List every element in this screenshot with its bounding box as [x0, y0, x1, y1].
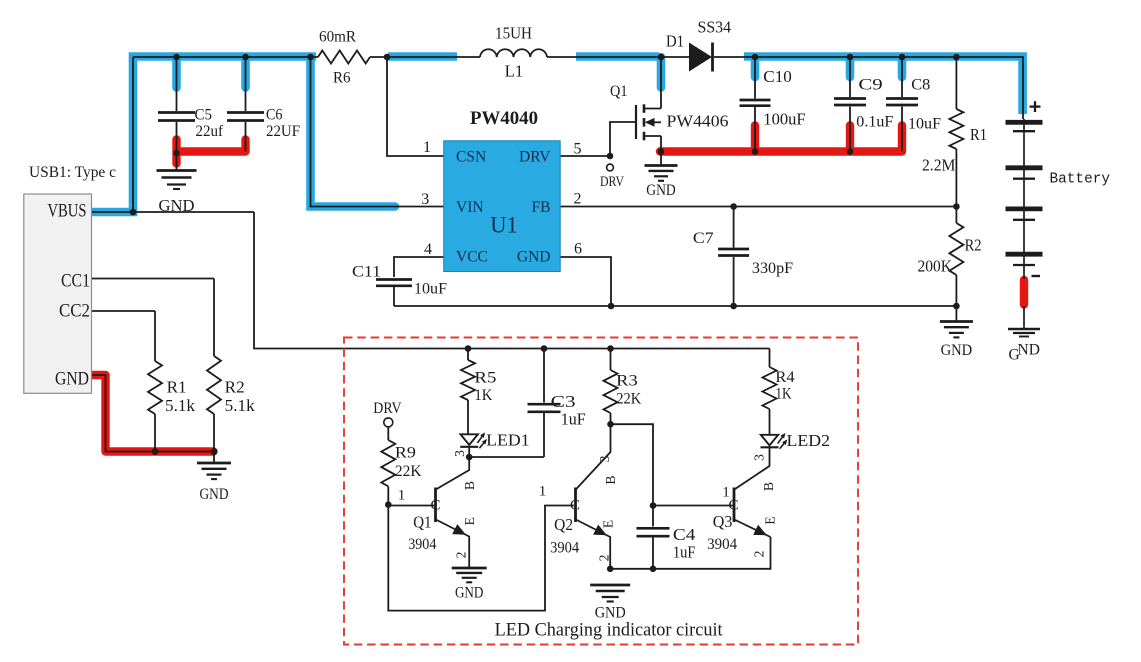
transistor Q2 3904 [539, 424, 618, 569]
resistor R1 5.1k pulldown [148, 361, 196, 415]
svg-text:2: 2 [752, 551, 767, 558]
wire blue stub C9 [846, 57, 855, 77]
svg-text:LED Charging indicator circuit: LED Charging indicator circuit [495, 621, 724, 641]
svg-text:C9: C9 [858, 77, 882, 94]
wire red power ground bus [660, 126, 902, 152]
svg-text:E: E [763, 516, 778, 524]
wire C6 bottom lead [245, 122, 247, 152]
svg-text:3904: 3904 [408, 536, 436, 553]
wire rail blue to battery [744, 57, 1023, 115]
svg-text:Q1: Q1 [413, 513, 431, 532]
transistor Q1 PW4406 mosfet [610, 83, 729, 140]
pin number 5 DRV [574, 141, 582, 158]
svg-text:C4: C4 [673, 525, 696, 544]
svg-text:E: E [601, 520, 616, 528]
svg-text:VBUS: VBUS [48, 200, 87, 221]
node LED1 cathode pin 3 [452, 447, 473, 461]
node DRV at pin 5 [600, 153, 624, 190]
wire blue stub C10 [751, 57, 760, 77]
wire C5 top lead [176, 57, 178, 111]
wire blue stub C5 [172, 57, 181, 88]
svg-text:B: B [462, 481, 477, 490]
svg-text:C6: C6 [266, 107, 283, 124]
svg-text:VIN: VIN [456, 199, 484, 216]
label LED charging indicator circuit [495, 621, 724, 641]
diode D1 SS34 [666, 18, 731, 72]
svg-text:C3: C3 [551, 392, 576, 411]
resistor R1 2.2M [922, 109, 987, 175]
svg-text:5.1k: 5.1k [165, 396, 196, 415]
svg-text:SS34: SS34 [698, 18, 732, 37]
wire CSN branch [387, 57, 444, 156]
svg-text:CSN: CSN [456, 148, 486, 165]
wire CC2 [92, 310, 156, 312]
wire VBUS horizontal [92, 211, 255, 213]
svg-text:3904: 3904 [707, 536, 737, 553]
transistor Q1 3904 [388, 457, 477, 568]
svg-text:LED2: LED2 [787, 431, 831, 450]
wire rail segment 3 [547, 56, 689, 58]
svg-text:10uF: 10uF [908, 116, 941, 133]
wire CC2 to R1 pulldown [154, 311, 156, 361]
svg-text:Q1: Q1 [610, 83, 628, 100]
svg-text:1: 1 [398, 488, 406, 504]
svg-text:3: 3 [452, 450, 467, 457]
wire C9 top lead [849, 57, 851, 97]
svg-text:GND: GND [941, 342, 973, 359]
capacitor C10 [740, 67, 806, 128]
wire GND pin6 [560, 257, 611, 306]
wire red USB GND [92, 375, 214, 452]
capacitor C7 330pF [693, 230, 794, 277]
svg-text:B: B [761, 482, 776, 491]
svg-text:22uf: 22uf [196, 123, 224, 140]
svg-text:R5: R5 [474, 369, 496, 386]
svg-text:R3: R3 [616, 373, 638, 390]
svg-text:2: 2 [574, 191, 582, 208]
wire R1 bottom lead [955, 149, 957, 207]
svg-text:1uF: 1uF [561, 410, 586, 429]
ground GND under Q1 source [645, 166, 678, 200]
svg-text:C5: C5 [195, 107, 213, 124]
svg-text:22K: 22K [616, 391, 641, 408]
wire USB ground stem [213, 452, 215, 464]
wire Q1 drain [660, 57, 662, 109]
wire blue stub Q1 drain [657, 57, 666, 88]
svg-text:1K: 1K [474, 387, 492, 404]
svg-text:FB: FB [532, 199, 551, 216]
svg-text:1: 1 [423, 139, 431, 156]
svg-text:U1: U1 [490, 213, 518, 239]
resistor R9 22K [373, 400, 422, 505]
wire C7 bottom lead [733, 257, 735, 306]
wire VBUS blue highlight [92, 57, 317, 213]
wire C8 bottom lead [901, 107, 903, 152]
wire rail segment 1 [133, 56, 318, 58]
svg-text:3: 3 [597, 455, 612, 462]
svg-text:GND: GND [455, 585, 484, 602]
wire red battery minus capsule [1020, 280, 1028, 305]
wire C6 top lead [245, 57, 247, 111]
svg-text:GND: GND [200, 486, 229, 503]
inductor L1 [480, 23, 547, 80]
resistor R4 1K [763, 367, 795, 435]
svg-text:15UH: 15UH [495, 23, 532, 42]
wire C9 bottom lead [849, 107, 851, 152]
svg-text:1uF: 1uF [673, 542, 696, 561]
svg-text:PW4040: PW4040 [470, 109, 538, 129]
svg-text:4: 4 [424, 241, 432, 258]
svg-text:60mR: 60mR [319, 28, 357, 45]
wire VCC to C11 [394, 257, 444, 277]
resistor R5 1K [461, 349, 496, 435]
wire R1 pulldown bottom lead [154, 414, 156, 452]
svg-text:22UF: 22UF [266, 123, 300, 140]
wire CC1 to R2 pulldown [213, 279, 215, 357]
svg-text:2.2M: 2.2M [922, 156, 956, 175]
svg-text:330pF: 330pF [752, 260, 794, 277]
dashed box LED charging indicator circuit [344, 338, 858, 645]
ground GND under Q1 emitter [452, 568, 487, 602]
svg-text:200K: 200K [918, 257, 953, 276]
wire Q2 emitter to Q3 emitter [610, 537, 770, 569]
svg-text:22K: 22K [395, 463, 422, 480]
LED LED1 [460, 431, 530, 450]
svg-text:R1: R1 [167, 378, 187, 397]
ground GND under C5 [157, 171, 197, 216]
svg-text:100uF: 100uF [763, 109, 805, 128]
svg-text:E: E [462, 517, 477, 525]
battery [1006, 101, 1111, 279]
svg-text:R2: R2 [225, 378, 245, 397]
svg-text:2: 2 [597, 555, 612, 562]
svg-text:R9: R9 [395, 445, 416, 462]
svg-text:GND: GND [646, 182, 676, 199]
pin number 4 VCC [424, 241, 432, 258]
wire rail blue after R6 [388, 52, 457, 61]
svg-text:CC2: CC2 [59, 301, 90, 322]
pin number 1 CSN [423, 139, 431, 156]
capacitor C6 [227, 107, 300, 140]
pin number 2 FB [574, 191, 582, 208]
wire VBUS riser [132, 57, 134, 212]
svg-text:C8: C8 [911, 77, 930, 94]
wire Q1 gate [610, 122, 636, 156]
svg-text:R2: R2 [965, 235, 982, 254]
wire C11 bottom lead [393, 287, 395, 306]
svg-text:DRV: DRV [600, 174, 624, 190]
node Q1 base junction [385, 488, 405, 508]
svg-text:Battery: Battery [1050, 171, 1111, 188]
capacitor C8 [886, 77, 941, 133]
svg-text:B: B [603, 475, 618, 484]
ground GND under R2 [940, 322, 973, 360]
wire C5 bottom lead [176, 122, 178, 170]
svg-text:R4: R4 [775, 369, 794, 386]
resistor R2 5.1k pulldown [207, 356, 255, 415]
wire red C6 to C5 ground [179, 140, 246, 152]
wire bottom ground row [394, 305, 956, 307]
svg-text:3: 3 [752, 454, 767, 461]
wire R2 bottom to ground [955, 275, 957, 321]
svg-text:2: 2 [454, 552, 469, 559]
svg-text:3: 3 [421, 191, 429, 208]
wire VIN blue branch [311, 57, 396, 207]
wire C8 top lead [901, 57, 903, 97]
wire Q1 source to ground [660, 136, 662, 165]
resistor R6 [318, 28, 370, 86]
pin number 6 GND [574, 241, 582, 258]
wire R1 top lead [955, 57, 957, 109]
pin number 3 VIN [421, 191, 429, 208]
svg-text:5: 5 [574, 141, 582, 158]
ground GND under USB [197, 463, 231, 503]
wire VBUS to LED circuit top [254, 212, 770, 349]
svg-text:5.1k: 5.1k [225, 396, 256, 415]
wire rail blue before D1 [576, 52, 659, 61]
wire red stub C10 [751, 126, 759, 152]
resistor R3 22K [604, 349, 642, 425]
svg-text:D1: D1 [666, 31, 684, 50]
wire C10 bottom lead [754, 107, 756, 152]
op-amp U1 PW4040 chip [444, 109, 561, 272]
svg-text:ND: ND [1018, 342, 1040, 359]
node LED circuit top junctions [465, 345, 614, 352]
wire red stub C9 [846, 126, 854, 152]
wire R2 top lead [955, 207, 957, 224]
wire R2 pulldown bottom lead [213, 414, 215, 452]
svg-text:0.1uF: 0.1uF [856, 114, 893, 131]
wire VIN branch [311, 57, 445, 207]
svg-text:C: C [431, 497, 441, 513]
svg-text:10uF: 10uF [414, 281, 447, 298]
capacitor C4 1uF [637, 502, 696, 572]
svg-text:GND: GND [595, 605, 626, 622]
ground GND under Q2 emitter [590, 566, 630, 622]
svg-text:DRV: DRV [373, 400, 402, 417]
svg-text:6: 6 [574, 241, 582, 258]
svg-text:1K: 1K [775, 386, 792, 403]
svg-text:GND: GND [517, 249, 551, 266]
wire CC1 [92, 278, 215, 280]
node R3 bottom to Q3 base [607, 421, 653, 506]
transistor Q3 3904 [653, 447, 778, 557]
svg-text:1: 1 [539, 484, 547, 500]
svg-text:C7: C7 [693, 230, 714, 247]
svg-text:GND: GND [159, 196, 195, 215]
capacitor C3 1uF [469, 349, 586, 458]
svg-text:L1: L1 [505, 62, 524, 81]
wire LED circuit top rail [769, 349, 771, 368]
wire Q1 base to Q2 base [388, 505, 574, 611]
svg-text:R6: R6 [333, 70, 351, 87]
svg-text:PW4406: PW4406 [667, 112, 729, 131]
svg-text:CC1: CC1 [61, 271, 90, 292]
wire USB GND black [92, 375, 215, 452]
wire C7 top lead [733, 207, 735, 248]
wire C10 top lead [754, 57, 756, 99]
svg-text:3904: 3904 [550, 540, 579, 557]
capacitor C9 [834, 77, 893, 131]
svg-text:C10: C10 [763, 67, 792, 86]
wire rail segment 4 to battery [714, 57, 1023, 119]
LED LED2 [761, 431, 831, 450]
ground GND under battery [1008, 306, 1040, 364]
wire blue stub C6 [241, 57, 250, 88]
svg-text:DRV: DRV [519, 148, 551, 165]
capacitor C5 [158, 107, 224, 140]
svg-text:C: C [570, 497, 580, 513]
capacitor C11 10uF [352, 264, 447, 298]
svg-text:R1: R1 [970, 125, 987, 144]
svg-text:Q3: Q3 [713, 512, 733, 531]
svg-text:USB1: Type c: USB1: Type c [29, 164, 116, 181]
svg-text:LED1: LED1 [486, 431, 530, 450]
USB1 Type c connector [24, 164, 116, 393]
svg-text:Q2: Q2 [554, 515, 573, 534]
wire FB row [560, 206, 956, 208]
svg-text:GND: GND [55, 369, 89, 390]
wire rail segment 2 [370, 56, 480, 58]
svg-text:VCC: VCC [456, 249, 488, 266]
wire red C5 ground capsule [172, 140, 180, 164]
wire blue stub C8 [898, 57, 907, 77]
svg-text:C11: C11 [352, 264, 381, 281]
wire DRV pin5 [560, 155, 610, 157]
resistor R2 200K [918, 223, 982, 276]
